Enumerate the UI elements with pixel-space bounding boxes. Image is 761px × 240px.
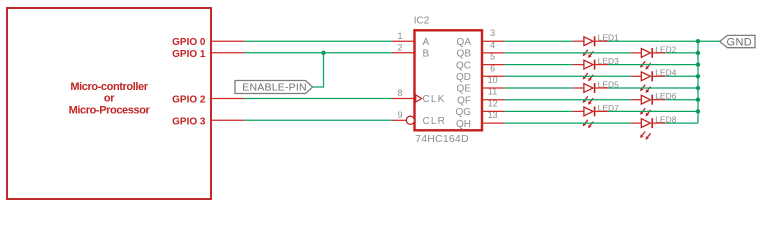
svg-text:QD: QD xyxy=(456,72,471,83)
LED LED7 xyxy=(583,106,595,128)
svg-text:QA: QA xyxy=(457,37,472,48)
svg-text:QF: QF xyxy=(457,95,471,106)
svg-text:3: 3 xyxy=(490,28,495,38)
svg-text:74HC164D: 74HC164D xyxy=(415,133,469,145)
svg-text:or: or xyxy=(104,93,115,105)
LED LED3 xyxy=(583,60,595,82)
micro-controller label xyxy=(69,81,151,117)
wire QA-row 7: IC2 pin 12 to LED7 xyxy=(482,110,584,112)
junction GND bus row 3 xyxy=(696,62,700,66)
LED LED1 xyxy=(583,36,595,58)
svg-text:QH: QH xyxy=(456,119,471,130)
LED LED2 xyxy=(640,48,652,70)
op-amp/IC U IC2 74HC164D body xyxy=(415,30,483,130)
LED LED6 xyxy=(640,95,652,117)
inversion bubble on CLR pin xyxy=(406,116,414,124)
svg-text:A: A xyxy=(423,37,430,48)
micro-controller box xyxy=(7,8,211,199)
LED LED8 xyxy=(640,118,652,140)
wire QA-row 4: IC2 pin 6 to LED4 xyxy=(482,75,641,77)
svg-text:ENABLE-PIN: ENABLE-PIN xyxy=(242,81,306,93)
svg-text:QC: QC xyxy=(456,60,471,71)
wire QA-row 8: IC2 pin 13 to LED8 xyxy=(482,122,641,124)
wire QA-row 5: IC2 pin 10 to LED5 xyxy=(482,87,584,89)
wire QA-row 1: IC2 pin 3 to LED1 xyxy=(482,40,584,42)
GND bus vertical wire xyxy=(697,41,699,123)
svg-text:QB: QB xyxy=(457,49,472,60)
junction GND bus row 2 xyxy=(696,51,700,55)
svg-text:1: 1 xyxy=(397,31,402,41)
wire LED1 cathode to GND bus xyxy=(595,40,698,42)
svg-text:GPIO 0: GPIO 0 xyxy=(172,37,206,48)
wire LED4 cathode to GND bus xyxy=(652,75,698,77)
wire GND bus to GND tag xyxy=(698,40,720,42)
wire LED2 cathode to GND bus xyxy=(652,52,698,54)
wire LED7 cathode to GND bus xyxy=(595,110,698,112)
svg-text:8: 8 xyxy=(397,88,402,98)
wire LED5 cathode to GND bus xyxy=(595,87,698,89)
svg-text:QE: QE xyxy=(457,84,472,95)
svg-text:9: 9 xyxy=(397,110,402,120)
wire QA-row 3: IC2 pin 5 to LED3 xyxy=(482,64,584,66)
svg-text:GND: GND xyxy=(727,37,753,49)
junction on net GPIO1 xyxy=(321,51,325,55)
LED LED4 xyxy=(640,71,652,93)
svg-text:CLK: CLK xyxy=(423,94,446,105)
junction GND bus row 5 xyxy=(696,86,700,90)
junction GND bus row 1 xyxy=(696,39,700,43)
wire GPIO1 to pin 2 (B) of IC2 xyxy=(211,52,415,54)
wire GPIO2 to pin 8 (CLK) of IC2 xyxy=(211,98,415,100)
svg-text:Micro-controller: Micro-controller xyxy=(70,81,148,93)
svg-text:GPIO 1: GPIO 1 xyxy=(172,49,206,60)
svg-text:B: B xyxy=(423,49,430,60)
wire QA-row 6: IC2 pin 11 to LED6 xyxy=(482,99,641,101)
junction GND bus row 7 xyxy=(696,109,700,113)
svg-text:IC2: IC2 xyxy=(414,16,430,27)
wire QA-row 2: IC2 pin 4 to LED2 xyxy=(482,52,641,54)
svg-text:GPIO 2: GPIO 2 xyxy=(172,95,206,106)
wire ENABLE-PIN to net GPIO1 xyxy=(313,53,324,88)
wire GPIO3 to pin 9 (CLR) of IC2 xyxy=(211,119,406,121)
svg-text:CLR: CLR xyxy=(423,116,447,127)
net label ENABLE-PIN xyxy=(235,81,313,94)
clock symbol on CLK pin xyxy=(416,95,422,102)
junction GND bus row 4 xyxy=(696,74,700,78)
wire GPIO0 to pin 1 (A) of IC2 xyxy=(211,40,415,42)
wire LED6 cathode to GND bus xyxy=(652,99,698,101)
ground tag GND xyxy=(720,35,755,48)
LED LED5 xyxy=(583,83,595,105)
svg-text:QG: QG xyxy=(455,107,471,118)
svg-text:Micro-Processor: Micro-Processor xyxy=(69,104,151,116)
junction GND bus row 6 xyxy=(696,98,700,102)
wire LED8 cathode to GND bus xyxy=(652,122,698,124)
svg-text:GPIO 3: GPIO 3 xyxy=(172,116,206,127)
wire LED3 cathode to GND bus xyxy=(595,64,698,66)
svg-text:2: 2 xyxy=(397,43,402,53)
